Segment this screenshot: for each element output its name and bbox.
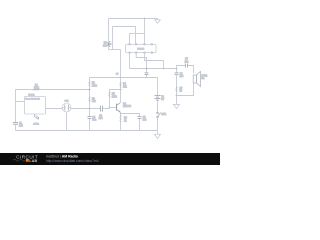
potentiometer R8: [107, 41, 112, 46]
speaker SPK1: [193, 71, 200, 86]
wire feedback tap to R5 top: [110, 90, 121, 92]
wire stair horizontal y=49.5: [109, 49, 121, 51]
switch SW1: [157, 112, 161, 118]
wire R2 to R3: [89, 87, 91, 96]
wire vertical into potentiometer: [108, 19, 110, 42]
svg-text:ANT1: ANT1: [33, 123, 39, 126]
wire C1 to rail corner: [15, 124, 17, 130]
node output row x=176.5: [176, 68, 178, 70]
node speaker return: [176, 95, 178, 97]
wire CV1 bottom to rail: [66, 112, 68, 130]
svg-text:100k: 100k: [112, 96, 118, 98]
wire R5 bottom to base node: [109, 98, 111, 109]
wire row y=26.5 to IC pin2: [113, 27, 136, 44]
node on output row x=146.5: [146, 68, 148, 70]
wire R4 bottom to collector: [120, 88, 122, 102]
wire R3 down through detector row: [89, 103, 91, 117]
wire C6 tap vertical: [176, 69, 178, 73]
wire divider vertical upper: [89, 78, 91, 81]
capacitor C5: [138, 117, 142, 119]
wire detector row left segment: [71, 108, 100, 110]
IC pin circles top: [129, 43, 153, 45]
svg-text:ECM1: ECM1: [28, 95, 35, 97]
wire top ground row y=18.5: [109, 18, 158, 20]
logo orange block: [26, 159, 29, 162]
resistor R4: [120, 82, 121, 88]
capacitor C2: [101, 106, 103, 112]
node base junction: [109, 107, 111, 109]
svg-text:100k: 100k: [34, 87, 40, 89]
node divider-feed junction: [89, 89, 91, 91]
wire from ground row down to pin tie row: [144, 19, 146, 34]
capacitor C10 bars: [145, 73, 149, 75]
node power row x=120.5: [120, 77, 122, 79]
wire pin tie row y=33.5: [130, 33, 145, 35]
capacitor C6: [175, 73, 179, 75]
resistor R6: [120, 115, 121, 123]
wire down to IC pin3: [144, 34, 146, 44]
tuned circuit box XF1: [25, 97, 46, 115]
wire base: [110, 107, 117, 109]
wire speaker bottom return: [177, 83, 194, 96]
wire C5 to rail: [139, 119, 141, 131]
wire R7 to ground: [176, 93, 178, 105]
op-amp IC U1 body: [126, 45, 157, 53]
svg-text:8Ω: 8Ω: [201, 78, 204, 80]
wire below C10: [146, 75, 148, 78]
wire emitter down: [120, 112, 122, 115]
antenna mark under box: [34, 114, 39, 119]
wire emitter tap to C5: [121, 114, 140, 117]
svg-text:Tuned circuit unit: Tuned circuit unit: [25, 98, 40, 101]
node collector feedback tap: [120, 89, 122, 91]
wire left vertical x=15.5: [15, 90, 17, 123]
wire R6 to rail: [120, 123, 122, 131]
svg-text:9V: 9V: [161, 99, 164, 101]
wire IC pin3 bottom stair: [145, 53, 164, 68]
svg-text:LM386: LM386: [137, 49, 144, 51]
IC pin circles bottom: [129, 52, 153, 54]
battery V1: [155, 96, 161, 101]
ground bottom-right: [155, 131, 161, 139]
node detector-divider junction: [89, 108, 91, 110]
wire stair vertical x=112.5: [112, 27, 114, 50]
node pot wiper junction: [108, 44, 110, 46]
wire pot bottom lead: [108, 47, 110, 50]
svg-text:100k: 100k: [92, 85, 98, 87]
resistor R2: [89, 81, 90, 87]
svg-text:2N3904: 2N3904: [123, 106, 132, 108]
wire battery drop from power row: [157, 78, 159, 96]
wire battery to switch: [157, 100, 159, 112]
wire left feed row y=89.5: [16, 89, 33, 91]
wire switch to rail: [157, 118, 159, 131]
wire down to IC pin1: [129, 34, 131, 44]
capacitor C1: [13, 122, 18, 124]
resistor R5: [109, 91, 110, 97]
resistor R1: [33, 89, 40, 90]
wire IC pin2 bottom stair down to power row: [136, 53, 146, 72]
svg-text:http://www.circuitlab.com/c/nk: http://www.circuitlab.com/c/nkru7m4: [46, 159, 99, 163]
wire C6 to R7: [176, 75, 178, 86]
wire output corner up to C7: [177, 66, 186, 69]
transistor Q1: [117, 103, 121, 113]
wire detector row right segment: [103, 108, 110, 110]
node on output row x=163.5: [163, 68, 165, 70]
wire box left pin: [16, 101, 25, 103]
resistor R3: [89, 96, 90, 102]
capacitor C7: [186, 64, 188, 68]
ground speaker: [174, 104, 180, 108]
svg-text:mattbrut | AM Radio: mattbrut | AM Radio: [46, 155, 78, 159]
wire R1 to divider: [40, 89, 89, 91]
resistor R7: [176, 86, 177, 92]
wire collector vertical x=120.5 upper: [120, 50, 122, 82]
wire ground rail y=130.5: [16, 130, 158, 132]
wire C7 to speaker top: [188, 66, 194, 74]
capacitor C3: [88, 117, 92, 119]
ground top-right: [155, 19, 161, 24]
wire C3 to rail: [89, 119, 91, 131]
wire IC pin1 bottom to output row: [129, 53, 131, 68]
svg-text:SW1: SW1: [161, 114, 167, 116]
svg-text:LAB: LAB: [29, 159, 37, 163]
wire output row y=68.5: [130, 68, 177, 70]
variable capacitor CV1: [62, 103, 71, 112]
footer bar: [0, 153, 220, 165]
node junction on ground row: [144, 18, 146, 20]
node emitter tap: [120, 113, 122, 115]
wire wiper branch: [109, 44, 113, 46]
wire box right pin: [46, 108, 63, 110]
wire power row y=77.5: [90, 77, 158, 79]
logo waveform squiggle: [13, 159, 25, 161]
